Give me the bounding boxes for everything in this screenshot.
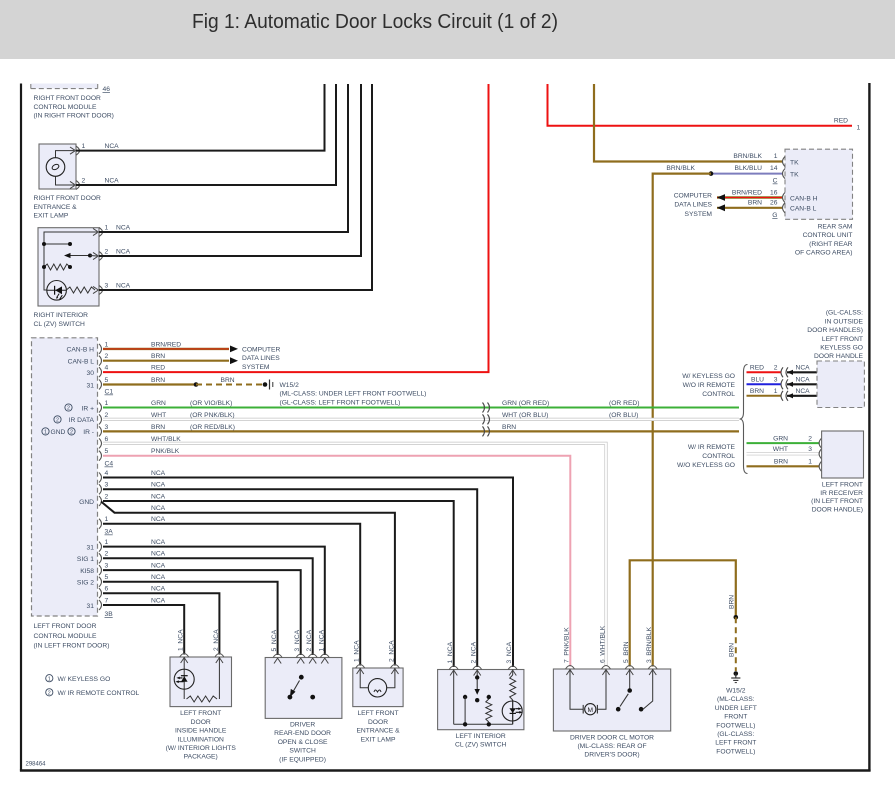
svg-text:(W/ INTERIOR LIGHTS: (W/ INTERIOR LIGHTS bbox=[166, 745, 237, 752]
svg-text:W/ IR REMOTE: W/ IR REMOTE bbox=[688, 444, 736, 451]
illumination pin 1 bbox=[180, 654, 189, 658]
svg-text:W15/2: W15/2 bbox=[280, 382, 300, 389]
motor wiring bbox=[570, 669, 583, 709]
svg-text:1 NCA: 1 NCA bbox=[354, 640, 361, 662]
svg-text:3: 3 bbox=[808, 446, 812, 453]
svg-text:31: 31 bbox=[87, 382, 95, 389]
wire NCA to left interior switch pin 2 bbox=[103, 489, 477, 667]
ground symbol W15/2 bbox=[734, 671, 739, 676]
diagram frame left edge bbox=[20, 84, 22, 771]
svg-text:3 NCA: 3 NCA bbox=[506, 641, 513, 663]
motor M1 bbox=[582, 705, 584, 714]
illumination internals bbox=[183, 657, 185, 699]
svg-text:26: 26 bbox=[770, 200, 778, 207]
wire NCA to LF entrance lamp pin 1 bbox=[103, 524, 360, 666]
pin 1 bbox=[76, 146, 80, 155]
module pin 3A-2 SIG 1 bbox=[99, 553, 102, 563]
LI switch pin 1 bbox=[449, 666, 458, 670]
svg-text:14: 14 bbox=[770, 165, 778, 172]
svg-text:DOOR HANDLE: DOOR HANDLE bbox=[814, 353, 864, 360]
module pin C4-1 IR+ bbox=[99, 403, 102, 413]
svg-text:DATA LINES: DATA LINES bbox=[242, 355, 280, 362]
LI switch resistor pin3 bbox=[512, 670, 514, 676]
svg-text:LEFT FRONT DOOR: LEFT FRONT DOOR bbox=[34, 623, 97, 630]
svg-text:RIGHT FRONT DOOR: RIGHT FRONT DOOR bbox=[34, 195, 102, 202]
lamp bulb bbox=[368, 679, 386, 697]
svg-text:DOOR HANDLE): DOOR HANDLE) bbox=[812, 507, 863, 514]
motor pin 6 bbox=[602, 666, 611, 670]
svg-text:PNK/BLK: PNK/BLK bbox=[151, 448, 180, 455]
svg-text:CAN-B L: CAN-B L bbox=[68, 359, 95, 366]
wire NCA to handle illumination pin 1 bbox=[103, 605, 184, 655]
motor switch contact pin3 bbox=[643, 669, 653, 709]
svg-text:2: 2 bbox=[105, 353, 109, 360]
svg-text:BRN: BRN bbox=[729, 643, 736, 657]
svg-text:W/ KEYLESS GO: W/ KEYLESS GO bbox=[682, 373, 735, 380]
svg-text:BRN: BRN bbox=[750, 388, 764, 395]
svg-text:LEFT FRONT: LEFT FRONT bbox=[180, 710, 221, 717]
svg-text:BRN: BRN bbox=[502, 424, 516, 431]
left front door control module U1 bbox=[32, 338, 98, 616]
svg-text:IR +: IR + bbox=[82, 405, 95, 412]
svg-text:KEYLESS GO: KEYLESS GO bbox=[820, 345, 863, 352]
dashed BRN to ground W15/2 bbox=[196, 384, 265, 386]
svg-text:LEFT FRONT: LEFT FRONT bbox=[822, 336, 863, 343]
svg-text:EXIT LAMP: EXIT LAMP bbox=[361, 736, 396, 743]
svg-text:2 NCA: 2 NCA bbox=[471, 641, 478, 663]
svg-text:298464: 298464 bbox=[26, 762, 47, 768]
svg-text:3: 3 bbox=[774, 377, 778, 384]
svg-text:C: C bbox=[773, 178, 778, 185]
rear-end switch pin 5 bbox=[273, 654, 282, 658]
svg-text:4: 4 bbox=[105, 365, 109, 372]
svg-text:1: 1 bbox=[857, 125, 861, 132]
wire RED keyless bbox=[747, 371, 782, 373]
svg-text:W/ IR REMOTE CONTROL: W/ IR REMOTE CONTROL bbox=[58, 690, 140, 697]
legend IR remote control bbox=[46, 689, 53, 696]
LI switch internals bbox=[453, 670, 455, 725]
svg-text:(OR PNK/BLK): (OR PNK/BLK) bbox=[190, 412, 235, 419]
svg-text:5 NCA: 5 NCA bbox=[271, 629, 278, 651]
svg-text:DRIVER: DRIVER bbox=[290, 722, 315, 729]
svg-text:1: 1 bbox=[774, 153, 778, 160]
motor pin 5 bbox=[625, 666, 634, 670]
svg-text:NCA: NCA bbox=[151, 563, 166, 570]
module pin C1-4 30 bbox=[99, 367, 102, 377]
wire NCA switch pin3 bbox=[99, 84, 372, 290]
svg-text:31: 31 bbox=[87, 544, 95, 551]
svg-text:PACKAGE): PACKAGE) bbox=[184, 754, 218, 761]
LI switch pin 2 bbox=[473, 666, 482, 670]
wire BRN/BLK drop to door motor pin 3 bbox=[653, 174, 711, 667]
svg-text:BRN: BRN bbox=[729, 595, 736, 609]
svg-text:7: 7 bbox=[105, 597, 109, 604]
lamp internal wiring bbox=[56, 151, 75, 158]
module pin C4-2 IR DATA bbox=[99, 414, 102, 424]
svg-text:CONTROL: CONTROL bbox=[702, 391, 735, 398]
wire NCA keyless 3 bbox=[787, 383, 817, 385]
svg-text:BLU: BLU bbox=[751, 377, 764, 384]
svg-text:7 PNK/BLK: 7 PNK/BLK bbox=[564, 627, 571, 663]
svg-text:BRN/RED: BRN/RED bbox=[151, 341, 181, 348]
svg-text:EXIT LAMP: EXIT LAMP bbox=[34, 213, 69, 220]
wire BRN to computer data lines bbox=[103, 360, 229, 362]
svg-text:SYSTEM: SYSTEM bbox=[685, 211, 713, 218]
svg-text:CONTROL MODULE: CONTROL MODULE bbox=[34, 104, 97, 111]
module pin 3A-1 31 bbox=[99, 542, 102, 552]
wire BRN to IR receiver pin 1 bbox=[747, 465, 820, 467]
svg-text:COMPUTER: COMPUTER bbox=[674, 193, 712, 200]
svg-text:2: 2 bbox=[105, 412, 109, 419]
legend keyless go bbox=[46, 675, 53, 682]
module pin C4-3b bbox=[99, 484, 102, 494]
svg-text:1: 1 bbox=[105, 516, 109, 523]
module pin 3A-3 KI58 bbox=[99, 565, 102, 575]
svg-text:NCA: NCA bbox=[105, 177, 120, 184]
svg-text:M: M bbox=[588, 707, 594, 714]
svg-text:2: 2 bbox=[56, 418, 59, 424]
svg-text:(OR RED/BLK): (OR RED/BLK) bbox=[190, 424, 235, 431]
wire NCA lamp pin2 bbox=[76, 84, 336, 185]
LI switch LED bbox=[502, 701, 522, 721]
pin 1 bbox=[99, 228, 103, 237]
svg-text:DOOR HANDLES): DOOR HANDLES) bbox=[807, 327, 863, 334]
wire BLU keyless bbox=[747, 383, 782, 385]
rear-end switch pin 3 bbox=[296, 654, 305, 658]
rear SAM pin 1 bbox=[783, 157, 786, 167]
svg-text:(OR BLU): (OR BLU) bbox=[609, 412, 638, 419]
svg-text:RED: RED bbox=[151, 365, 165, 372]
svg-text:Fig 1: Automatic Door Locks Ci: Fig 1: Automatic Door Locks Circuit (1 o… bbox=[192, 11, 558, 33]
wire NCA lamp pin1 bbox=[76, 84, 325, 151]
svg-text:SIG 2: SIG 2 bbox=[77, 580, 94, 587]
svg-text:3 NCA: 3 NCA bbox=[294, 629, 301, 651]
module pin C4-1b bbox=[99, 519, 102, 529]
brace selector bbox=[740, 365, 748, 474]
svg-text:RED: RED bbox=[834, 118, 848, 125]
svg-text:30: 30 bbox=[87, 370, 95, 377]
svg-text:NCA: NCA bbox=[796, 377, 811, 384]
module pin 3A-6 bbox=[99, 588, 102, 598]
svg-text:16: 16 bbox=[770, 189, 778, 196]
svg-text:GRN: GRN bbox=[151, 400, 166, 407]
svg-text:LEFT FRONT: LEFT FRONT bbox=[357, 710, 398, 717]
wire NCA to rear-end door switch pin 2 bbox=[103, 558, 313, 655]
diagram frame bottom edge bbox=[20, 769, 871, 771]
svg-text:LEFT FRONT: LEFT FRONT bbox=[715, 740, 756, 747]
title bar bbox=[0, 0, 895, 59]
svg-text:(IF EQUIPPED): (IF EQUIPPED) bbox=[279, 756, 326, 763]
svg-text:WHT: WHT bbox=[151, 412, 166, 419]
svg-text:1 NCA: 1 NCA bbox=[178, 629, 185, 651]
wire NCA switch pin2 bbox=[99, 84, 361, 256]
LI switch arm pin 2 bbox=[476, 670, 478, 678]
svg-text:W15/2: W15/2 bbox=[726, 688, 746, 695]
motor switch bbox=[629, 669, 631, 691]
internal resistor bbox=[44, 264, 70, 270]
LF door inside handle illumination bbox=[170, 657, 232, 707]
svg-text:ENTRANCE &: ENTRANCE & bbox=[356, 728, 400, 735]
svg-text:COMPUTER: COMPUTER bbox=[242, 347, 280, 354]
svg-text:NCA: NCA bbox=[151, 470, 166, 477]
svg-text:(IN RIGHT FRONT DOOR): (IN RIGHT FRONT DOOR) bbox=[34, 113, 114, 120]
svg-text:RIGHT FRONT DOOR: RIGHT FRONT DOOR bbox=[34, 95, 102, 102]
wire RED riser bbox=[103, 84, 489, 372]
pin 2 bbox=[99, 252, 103, 261]
svg-text:FRONT: FRONT bbox=[724, 714, 747, 721]
svg-text:NCA: NCA bbox=[116, 282, 131, 289]
svg-text:W/O IR REMOTE: W/O IR REMOTE bbox=[683, 382, 736, 389]
wire WHT/BLK to door motor pin 6 bbox=[103, 443, 606, 666]
svg-text:1: 1 bbox=[82, 143, 86, 150]
svg-text:(ML-CLASS:: (ML-CLASS: bbox=[717, 696, 755, 703]
right interior CL (ZV) switch S1 bbox=[38, 228, 99, 306]
wire BRN from rear SAM pin 26 bbox=[717, 207, 783, 209]
IR receiver pin 3 bbox=[819, 449, 822, 459]
wire BRN motor pin5 to ground W15/2 bbox=[630, 560, 736, 666]
svg-text:2: 2 bbox=[808, 436, 812, 443]
svg-text:NCA: NCA bbox=[151, 574, 166, 581]
svg-text:4: 4 bbox=[105, 470, 109, 477]
svg-text:RED: RED bbox=[750, 365, 764, 372]
svg-text:NCA: NCA bbox=[151, 586, 166, 593]
wire BRN/RED from rear SAM pin 16 bbox=[717, 196, 783, 198]
svg-text:SYSTEM: SYSTEM bbox=[242, 364, 270, 371]
wire BRN/BLK to rear SAM TK pin 1 bbox=[594, 84, 783, 162]
module pin C4-4 bbox=[99, 473, 102, 483]
svg-text:REAR-END DOOR: REAR-END DOOR bbox=[274, 730, 331, 737]
wire NCA keyless 1 bbox=[787, 395, 817, 397]
wire BRN keyless bbox=[747, 395, 782, 397]
keyless go door handle unit bbox=[817, 361, 864, 408]
svg-text:1: 1 bbox=[774, 388, 778, 395]
lamp pin 2 bbox=[390, 665, 399, 669]
left front IR receiver unit bbox=[822, 431, 864, 478]
svg-text:(OR VIO/BLK): (OR VIO/BLK) bbox=[190, 400, 232, 407]
svg-text:GRN: GRN bbox=[773, 436, 788, 443]
rear SAM pin 14 bbox=[783, 169, 786, 179]
svg-text:2 NCA: 2 NCA bbox=[388, 640, 395, 662]
svg-text:(ML-CLASS: UNDER LEFT FRONT FO: (ML-CLASS: UNDER LEFT FRONT FOOTWELL) bbox=[280, 391, 427, 398]
motor pin 3 bbox=[648, 666, 657, 670]
svg-text:CL (ZV) SWITCH: CL (ZV) SWITCH bbox=[34, 321, 86, 328]
wire NCA keyless 2 bbox=[787, 371, 817, 373]
svg-text:OPEN & CLOSE: OPEN & CLOSE bbox=[278, 739, 328, 746]
svg-text:1: 1 bbox=[48, 676, 51, 682]
svg-text:BRN: BRN bbox=[151, 377, 165, 384]
IR receiver pin 1 bbox=[819, 461, 822, 471]
module pin C1-1 CAN-B H bbox=[99, 344, 102, 354]
svg-text:ILLUMINATION: ILLUMINATION bbox=[178, 736, 224, 743]
LF door entrance & exit lamp bbox=[353, 668, 403, 707]
svg-text:(GL-CLASS:: (GL-CLASS: bbox=[717, 731, 754, 738]
svg-text:C1: C1 bbox=[105, 389, 114, 396]
svg-text:NCA: NCA bbox=[151, 539, 166, 546]
svg-text:NCA: NCA bbox=[105, 143, 120, 150]
rear-end switch pin 2 bbox=[308, 654, 317, 658]
illuminated indicator bbox=[47, 281, 67, 301]
svg-text:OF CARGO AREA): OF CARGO AREA) bbox=[795, 250, 853, 257]
svg-text:CAN-B H: CAN-B H bbox=[790, 195, 818, 202]
dashed BRN ground drop bbox=[735, 617, 737, 671]
svg-text:(IN LEFT FRONT: (IN LEFT FRONT bbox=[811, 498, 863, 505]
module pin 3A-7 31 bbox=[99, 600, 102, 610]
wire NCA to rear-end door switch pin 1 bbox=[103, 547, 325, 655]
svg-text:BRN: BRN bbox=[748, 200, 762, 207]
svg-text:CL (ZV) SWITCH: CL (ZV) SWITCH bbox=[455, 742, 507, 749]
module pin 3A-5 SIG 2 bbox=[99, 577, 102, 587]
wire WHT to IR receiver pin 3 bbox=[747, 452, 820, 455]
right front door control module (cut at top) bbox=[31, 84, 98, 89]
svg-text:C4: C4 bbox=[105, 461, 114, 468]
svg-text:TK: TK bbox=[790, 171, 799, 178]
svg-text:NCA: NCA bbox=[796, 365, 811, 372]
svg-text:SWITCH: SWITCH bbox=[289, 748, 316, 755]
svg-text:(OR RED): (OR RED) bbox=[609, 400, 639, 407]
svg-text:DATA LINES: DATA LINES bbox=[674, 202, 712, 209]
module pin C1-5 31 bbox=[99, 380, 102, 390]
svg-text:CAN-B L: CAN-B L bbox=[790, 206, 817, 213]
svg-text:IR -: IR - bbox=[83, 429, 94, 436]
rear-end switch pin 1 bbox=[320, 654, 329, 658]
module pin C1-2 CAN-B L bbox=[99, 356, 102, 366]
svg-text:NCA: NCA bbox=[116, 248, 131, 255]
svg-text:3: 3 bbox=[105, 424, 109, 431]
svg-text:6 WHT/BLK: 6 WHT/BLK bbox=[600, 625, 607, 663]
svg-text:IR RECEIVER: IR RECEIVER bbox=[820, 490, 863, 497]
wire WHT to brace bbox=[103, 418, 739, 421]
wire NCA to left interior switch pin 3 bbox=[103, 478, 513, 668]
svg-text:DRIVER DOOR CL MOTOR: DRIVER DOOR CL MOTOR bbox=[570, 734, 654, 741]
svg-text:BRN/RED: BRN/RED bbox=[732, 189, 762, 196]
svg-text:NCA: NCA bbox=[151, 551, 166, 558]
svg-text:DOOR: DOOR bbox=[368, 719, 388, 726]
svg-text:2: 2 bbox=[105, 493, 109, 500]
svg-text:3B: 3B bbox=[105, 611, 114, 618]
left interior CL (ZV) switch bbox=[438, 670, 524, 730]
svg-text:3: 3 bbox=[105, 482, 109, 489]
svg-text:1: 1 bbox=[105, 341, 109, 348]
wire RED to rear SAM pin 1 bbox=[548, 84, 853, 126]
svg-text:WHT (OR BLU): WHT (OR BLU) bbox=[502, 412, 548, 419]
svg-text:GRN (OR RED): GRN (OR RED) bbox=[502, 400, 549, 407]
svg-text:2 NCA: 2 NCA bbox=[306, 629, 313, 651]
svg-text:LEFT INTERIOR: LEFT INTERIOR bbox=[456, 733, 506, 740]
resistor to pin 3 bbox=[66, 287, 95, 293]
wire NCA branch to LF entrance lamp pin 2 bbox=[101, 502, 395, 666]
svg-text:31: 31 bbox=[87, 603, 95, 610]
rear SAM control unit U2 bbox=[785, 149, 853, 219]
wire NCA to rear-end door switch pin 5 bbox=[103, 582, 278, 655]
wire NCA to rear-end door switch pin 3 bbox=[103, 570, 301, 655]
wire NCA switch pin1 bbox=[99, 84, 348, 232]
svg-text:NCA: NCA bbox=[151, 493, 166, 500]
svg-text:BRN: BRN bbox=[151, 353, 165, 360]
svg-text:BRN/BLK: BRN/BLK bbox=[666, 165, 695, 172]
wire GRN to IR receiver pin 2 bbox=[747, 442, 820, 444]
svg-text:IN OUTSIDE: IN OUTSIDE bbox=[825, 318, 864, 325]
module pin C4-2b GND bbox=[99, 496, 102, 506]
rear-end switch contacts bbox=[299, 675, 304, 680]
switch arm with arrow bbox=[68, 255, 90, 257]
svg-text:RIGHT INTERIOR: RIGHT INTERIOR bbox=[34, 312, 89, 319]
IR receiver pin 2 bbox=[819, 438, 822, 448]
wire GRN to brace bbox=[103, 407, 739, 409]
svg-text:(GL-CLASS: LEFT FRONT FOOTWELL: (GL-CLASS: LEFT FRONT FOOTWELL) bbox=[280, 399, 401, 406]
driver door CL motor bbox=[553, 669, 670, 731]
svg-text:BRN: BRN bbox=[221, 377, 235, 384]
svg-text:GND: GND bbox=[79, 499, 94, 506]
svg-text:46: 46 bbox=[103, 86, 111, 93]
svg-text:3: 3 bbox=[105, 563, 109, 570]
svg-text:2: 2 bbox=[48, 691, 51, 697]
contact row 1 bbox=[44, 243, 70, 245]
svg-text:BLK/BLU: BLK/BLU bbox=[734, 165, 762, 172]
svg-text:1: 1 bbox=[44, 430, 47, 436]
right front door entrance & exit lamp L1 bbox=[39, 144, 76, 189]
lamp internals bbox=[360, 668, 368, 688]
svg-text:2: 2 bbox=[105, 248, 109, 255]
switch internals bbox=[44, 232, 97, 290]
svg-text:DOOR: DOOR bbox=[191, 719, 211, 726]
illumination pin 2 bbox=[215, 654, 224, 658]
svg-text:1 NCA: 1 NCA bbox=[447, 641, 454, 663]
svg-text:WHT/BLK: WHT/BLK bbox=[151, 436, 181, 443]
lamp pin 1 bbox=[356, 665, 365, 669]
illumination LED bbox=[174, 669, 194, 689]
LI switch resistor bbox=[487, 695, 491, 699]
LI switch pin 3 bbox=[508, 666, 517, 670]
svg-text:IR DATA: IR DATA bbox=[69, 417, 95, 424]
svg-text:GND: GND bbox=[51, 429, 66, 436]
svg-text:2: 2 bbox=[105, 551, 109, 558]
svg-text:(GL-CALSS:: (GL-CALSS: bbox=[826, 310, 863, 317]
wire NCA to left interior switch pin 1 bbox=[103, 501, 454, 667]
svg-text:TK: TK bbox=[790, 159, 799, 166]
svg-text:1: 1 bbox=[105, 224, 109, 231]
wire BLK/BLU to rear SAM TK pin 14 bbox=[711, 173, 783, 175]
svg-text:BRN: BRN bbox=[774, 459, 788, 466]
svg-text:NCA: NCA bbox=[151, 597, 166, 604]
svg-text:2: 2 bbox=[82, 177, 86, 184]
pin 2 bbox=[76, 181, 80, 190]
svg-text:WHT: WHT bbox=[773, 446, 788, 453]
svg-text:1: 1 bbox=[105, 539, 109, 546]
svg-text:FOOTWELL): FOOTWELL) bbox=[716, 748, 755, 755]
lamp bulb symbol bbox=[46, 158, 65, 177]
module pin C4-3 GND IR- bbox=[99, 426, 102, 436]
svg-text:NCA: NCA bbox=[151, 505, 166, 512]
wire BRN to splice bbox=[103, 383, 196, 385]
svg-text:(IN LEFT FRONT DOOR): (IN LEFT FRONT DOOR) bbox=[34, 643, 110, 650]
svg-text:NCA: NCA bbox=[151, 482, 166, 489]
svg-text:W/O KEYLESS GO: W/O KEYLESS GO bbox=[677, 462, 735, 469]
svg-text:BRN/BLK: BRN/BLK bbox=[733, 153, 762, 160]
svg-text:INSIDE HANDLE: INSIDE HANDLE bbox=[175, 728, 227, 735]
wire PNK/BLK to door motor pin 7 bbox=[103, 456, 570, 667]
svg-text:6: 6 bbox=[105, 586, 109, 593]
pin 3 bbox=[99, 286, 103, 295]
rear SAM pin 16 bbox=[783, 193, 786, 203]
ground W15/2 splice symbol bbox=[269, 380, 271, 390]
diagram frame right edge bbox=[868, 83, 870, 771]
svg-text:CONTROL MODULE: CONTROL MODULE bbox=[34, 633, 97, 640]
svg-text:2: 2 bbox=[67, 406, 70, 412]
svg-text:SIG 1: SIG 1 bbox=[77, 556, 94, 563]
wire NCA to handle illumination pin 2 bbox=[103, 593, 219, 654]
svg-text:1 NCA: 1 NCA bbox=[318, 629, 325, 651]
svg-text:UNDER LEFT: UNDER LEFT bbox=[715, 705, 757, 712]
